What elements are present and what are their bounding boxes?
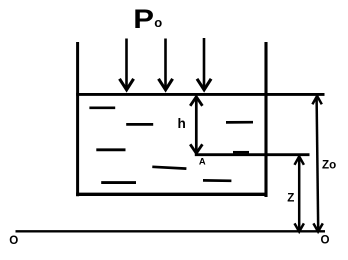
label P0 (applied pressure) [133,5,162,35]
level line through point A [195,153,310,156]
tank left wall [76,42,79,196]
svg-text:h: h [178,116,186,131]
tank right wall [264,42,267,197]
depth arrow h (double headed) [190,97,202,154]
water dash 7 [203,179,231,182]
svg-text:O: O [9,234,18,247]
free surface line (extended to Zo arrow) [76,93,324,96]
svg-text:A: A [199,155,206,166]
datum line O-O [16,230,326,232]
pressure arrow 3 [197,38,211,90]
svg-text:Zo: Zo [322,158,336,171]
water dash 3 [226,121,253,124]
water dash 8 (bump on line at A) [233,151,249,154]
water dash 4 [96,148,125,151]
pressure arrow 2 [159,39,173,90]
height arrow Z (double headed) [295,156,304,231]
water dash 6 [101,181,136,184]
svg-text:O: O [321,234,330,247]
pressure arrow 1 [120,39,134,90]
svg-text:o: o [154,15,162,30]
svg-text:P: P [133,5,154,35]
water dash 5 [152,167,186,169]
svg-text:Z: Z [287,191,294,204]
height arrow Zo (double headed) [312,96,322,232]
tank bottom [76,193,267,196]
water dash 1 [89,106,115,109]
water dash 2 [126,123,153,126]
